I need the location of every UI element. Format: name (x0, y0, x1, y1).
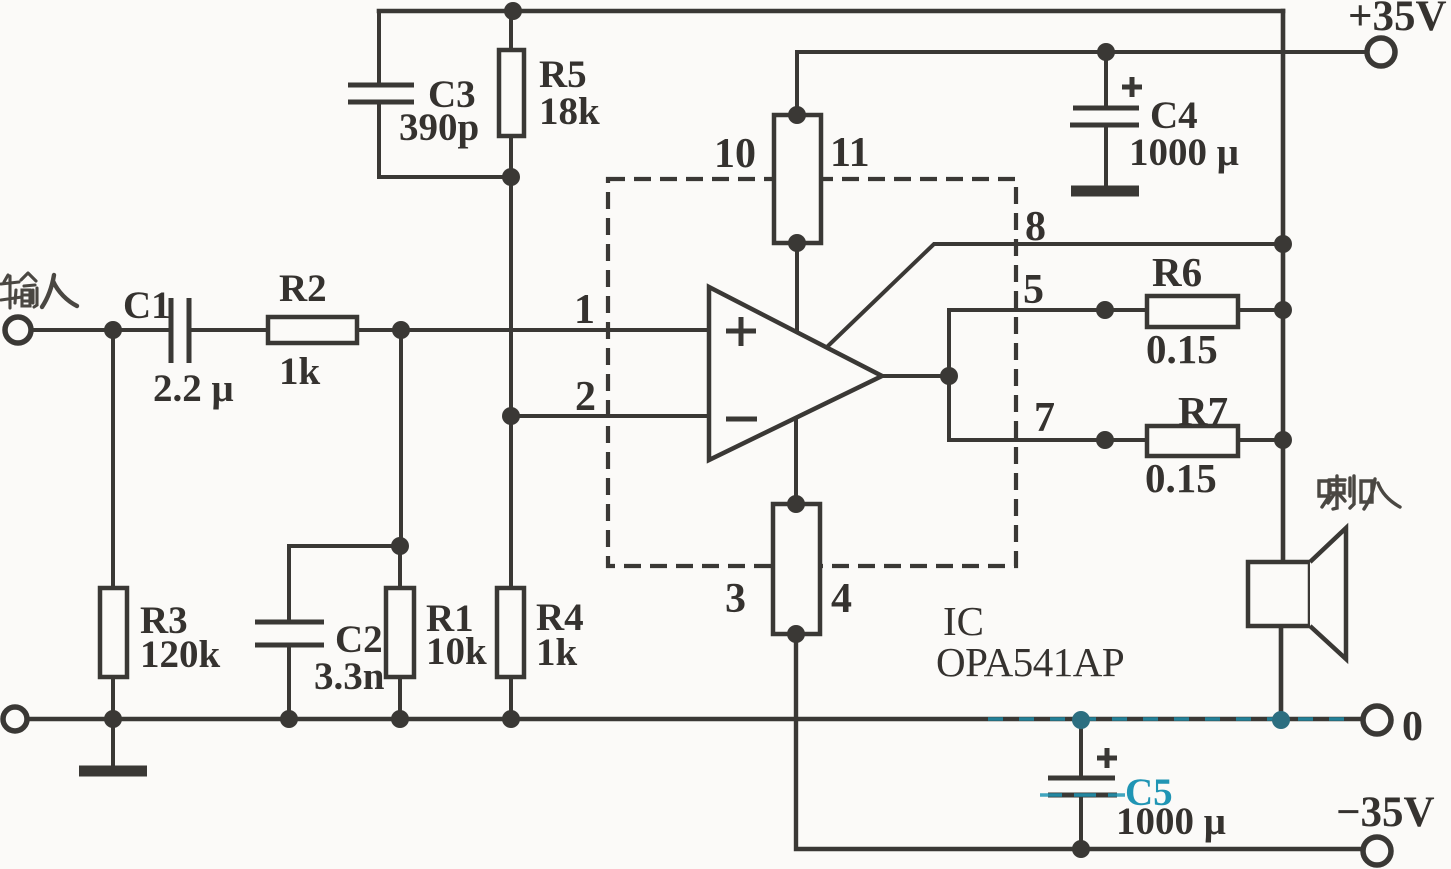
wire R1 stubs (398, 546, 402, 719)
wire feedback vertical to pin2 and R4 (509, 177, 513, 719)
wire C4 stub from +35V rail (1104, 52, 1108, 106)
svg-text:4: 4 (831, 576, 852, 622)
node R6 on output rail (1274, 301, 1292, 319)
svg-text:+35V: +35V (1348, 0, 1447, 40)
wire +35V supply horizontal (797, 52, 1366, 115)
svg-text:10k: 10k (426, 630, 487, 673)
wire C1 to R2 (190, 328, 268, 332)
svg-text:3.3n: 3.3n (314, 655, 385, 698)
node C5 top on 0 rail (teal tinted) (1072, 711, 1090, 729)
svg-text:10: 10 (714, 131, 756, 177)
svg-text:1k: 1k (279, 350, 321, 393)
svg-text:R7: R7 (1178, 388, 1228, 434)
svg-text:1000 μ: 1000 μ (1129, 131, 1239, 174)
svg-text:C1: C1 (123, 284, 171, 327)
wire output rail right side vertical (1281, 11, 1283, 720)
capacitor C3 plates (348, 85, 414, 102)
wire R3 branch vertical (111, 330, 115, 719)
terminal 0 left (3, 707, 27, 731)
svg-text:3: 3 (725, 576, 746, 622)
resistor R1 body (386, 588, 414, 677)
resistor R3 body (100, 588, 127, 677)
node R4 ground junction (502, 710, 520, 728)
node speaker on 0 rail (teal tinted) (1272, 711, 1290, 729)
wire pin 8 diagonal and horizontal to output rail (829, 244, 1283, 345)
node pin7 junction (1096, 431, 1114, 449)
wire C3 left branch (379, 11, 511, 177)
svg-text:OPA541AP: OPA541AP (936, 639, 1124, 685)
node R1 ground junction (391, 710, 409, 728)
node C4 on +35V rail (1097, 43, 1115, 61)
wire bottom bias resistor from op-amp bottom edge (794, 420, 798, 504)
svg-text:0: 0 (1402, 704, 1423, 750)
wire top feedback rail from C3/R5 top to output rail (379, 9, 1283, 14)
wire ground stub (111, 719, 115, 766)
node pin5 junction (1096, 301, 1114, 319)
svg-text:2.2 μ: 2.2 μ (153, 367, 234, 410)
node input junction (104, 321, 122, 339)
wire speaker branch through box (1280, 562, 1284, 626)
resistor R5 body (499, 50, 524, 136)
wire top bias resistor to op-amp top edge (795, 243, 799, 335)
wire pin 5 to R6 (949, 308, 1147, 312)
node R7 on output rail (1274, 431, 1292, 449)
wire 0V ground rail horizontal (28, 717, 1363, 722)
op-amp U1 triangle (709, 287, 882, 460)
svg-text:120k: 120k (140, 633, 221, 676)
svg-text:390p: 390p (399, 106, 479, 149)
svg-text:18k: 18k (539, 90, 600, 133)
resistor R6 body (1147, 296, 1238, 327)
wire R5 stubs (509, 11, 513, 177)
capacitor C5 plates (1048, 778, 1117, 795)
capacitor C2 plates (255, 622, 324, 645)
node R2 output junction (392, 321, 410, 339)
teal marker dashes on 0 rail (988, 717, 1360, 720)
svg-text:R2: R2 (279, 267, 327, 310)
svg-text:2: 2 (575, 374, 596, 420)
svg-text:8: 8 (1025, 204, 1046, 250)
resistor R2 body (268, 317, 357, 343)
op-amp minus input sign (726, 417, 757, 422)
svg-text:1k: 1k (536, 631, 578, 674)
terminal -35V (1363, 837, 1391, 865)
capacitor C4 plates (1070, 108, 1139, 125)
node bias resistor bottom pin (788, 234, 806, 252)
capacitor C4 polarity plus (1122, 77, 1142, 97)
wire input to C1 (30, 328, 170, 332)
wire pin 7 to R7 (949, 438, 1147, 442)
label laba (speaker) hanzi drawn as strokes (1319, 476, 1400, 509)
node R3 ground junction (104, 710, 122, 728)
wire C2 stubs (287, 546, 291, 719)
wire C4 lower stub (1104, 127, 1108, 187)
node bias resistor top pin (788, 106, 806, 124)
resistor bias top (pins 10-11) body (774, 115, 821, 243)
capacitor C5 polarity plus (1097, 748, 1117, 768)
terminal 0 right (1363, 706, 1391, 734)
svg-text:0.15: 0.15 (1145, 455, 1217, 501)
speaker box (1248, 562, 1310, 626)
speaker horn (1310, 528, 1346, 659)
resistor bias bottom (pins 3-4) body (773, 504, 820, 634)
wire pin 1 from R2 to op-amp (357, 328, 710, 332)
node lower bias resistor bottom pin (787, 625, 805, 643)
wire pin 2 from feedback node to op-amp (511, 414, 710, 418)
node feedback C3/R5 junction (502, 168, 520, 186)
resistor R7 body (1147, 426, 1238, 456)
svg-text:1000 μ: 1000 μ (1116, 800, 1226, 843)
node lower bias resistor top pin (787, 495, 805, 513)
resistor R4 body (497, 588, 524, 677)
node pin2 feedback junction (502, 407, 520, 425)
svg-text:R6: R6 (1152, 249, 1202, 295)
wire C5 lower stub (1079, 797, 1083, 849)
teal dash across C5 plate (1040, 793, 1125, 796)
ground symbol (79, 766, 147, 777)
wire C2 to R1 node horizontal (289, 544, 401, 548)
svg-text:−35V: −35V (1336, 789, 1435, 836)
wire R7 to output rail (1238, 438, 1283, 442)
node pin8 on output rail (1274, 235, 1292, 253)
node top rail / R5 junction (504, 2, 522, 20)
op-amp plus input sign (726, 317, 756, 346)
terminal +35V (1367, 38, 1395, 66)
wire op-amp output (881, 374, 949, 378)
IC OPA541AP dashed boundary box (608, 179, 1016, 566)
terminal input (5, 317, 31, 343)
svg-text:11: 11 (830, 130, 870, 176)
svg-text:IC: IC (943, 598, 984, 644)
svg-text:1: 1 (574, 287, 595, 333)
capacitor C4 bottom terminal bar (1071, 186, 1139, 197)
svg-text:5: 5 (1023, 267, 1044, 313)
wire pin5-pin7 vertical link (947, 310, 951, 440)
node C5 bottom on -35V rail (1072, 840, 1090, 858)
node C2 ground junction (280, 710, 298, 728)
wire R6 to output rail (1238, 308, 1283, 312)
wire C5 stub from 0 rail (1079, 720, 1083, 776)
wire R2 right junction down to C2/R1 node (399, 330, 403, 546)
node C2/R1 junction (391, 537, 409, 555)
wire -35V bottom rail (796, 634, 1363, 849)
capacitor C1 plates (171, 298, 189, 363)
svg-text:7: 7 (1034, 395, 1055, 441)
node op-amp output junction (940, 367, 958, 385)
svg-text:0.15: 0.15 (1146, 326, 1218, 372)
label shuru (input) hanzi drawn as strokes (1, 273, 77, 308)
